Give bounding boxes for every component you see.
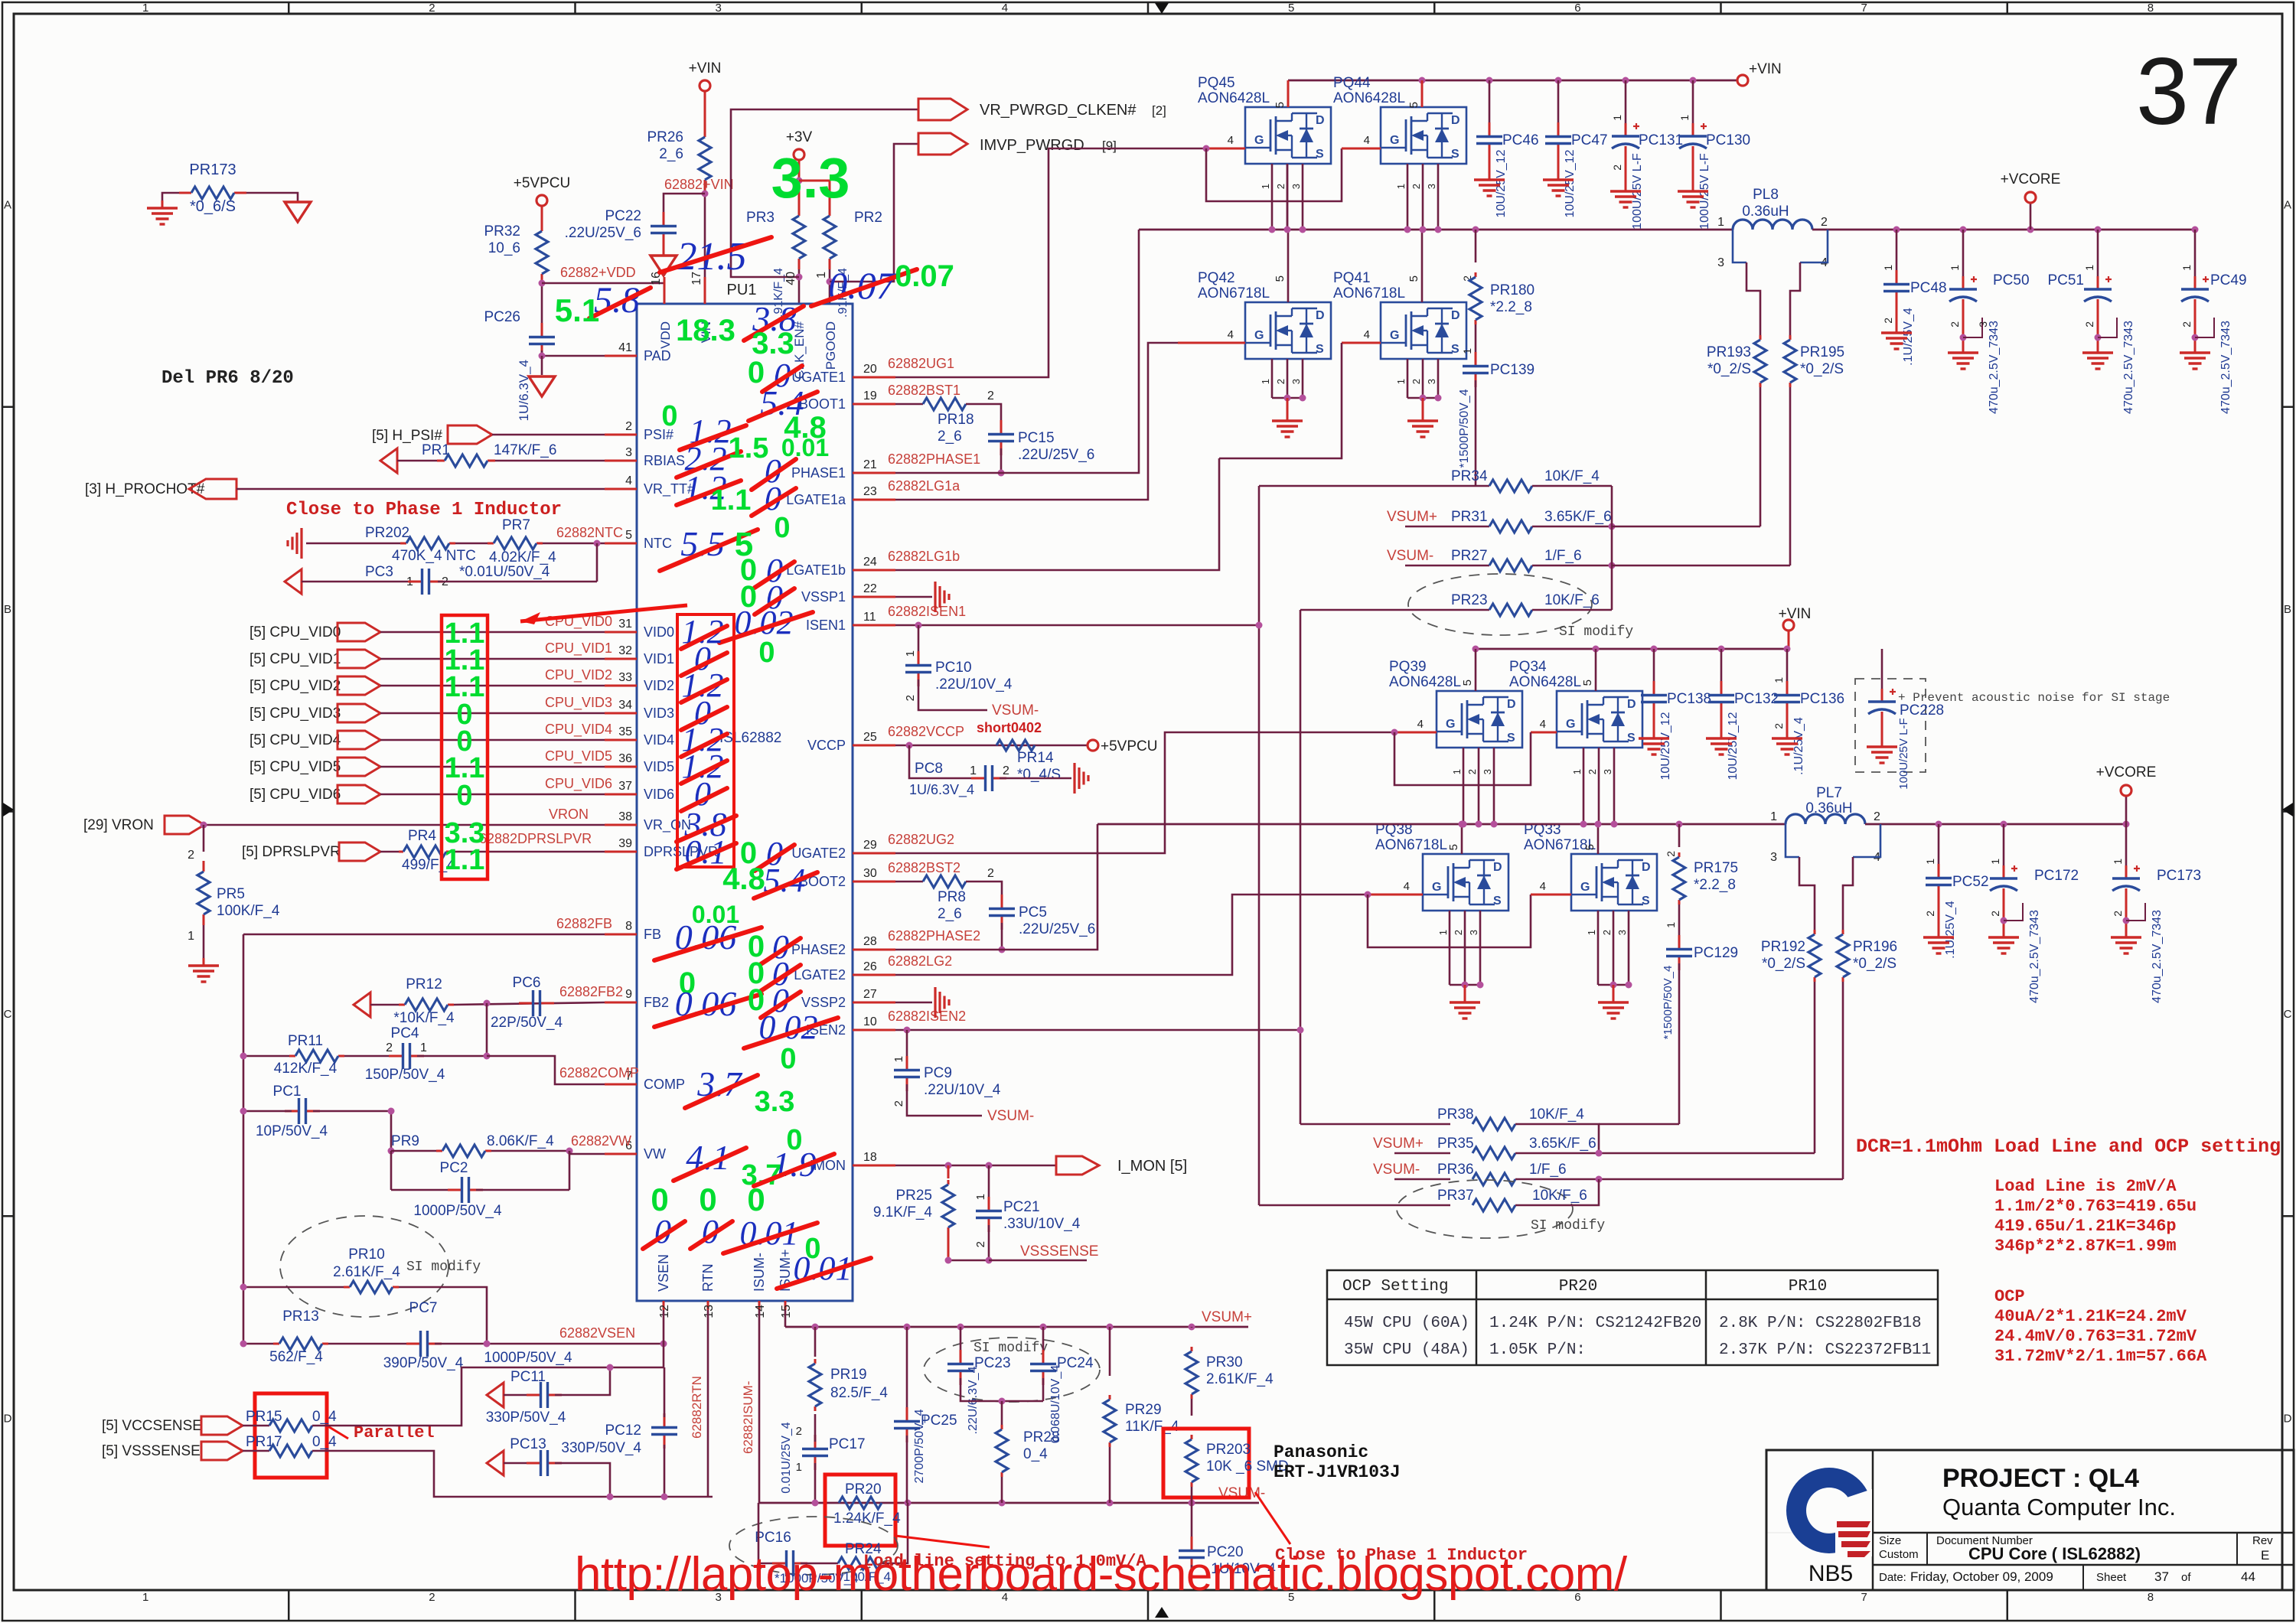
svg-text:5: 5 (1447, 844, 1460, 850)
svg-text:FB: FB (644, 927, 661, 942)
IC left pin 41 PAD (605, 355, 637, 357)
wire CPU_VID5 (380, 766, 605, 768)
resistor PR173 (179, 192, 191, 194)
svg-text:8.06K/F_4: 8.06K/F_4 (487, 1133, 554, 1149)
svg-text:[5] CPU_VID2: [5] CPU_VID2 (249, 678, 341, 694)
svg-text:D: D (1451, 309, 1460, 322)
svg-text:UGATE1: UGATE1 (791, 370, 846, 385)
svg-text:FB2: FB2 (644, 995, 669, 1010)
svg-text:62882ISEN2: 62882ISEN2 (888, 1009, 966, 1024)
svg-text:D: D (2284, 1413, 2292, 1426)
svg-text:470K_4 NTC: 470K_4 NTC (392, 548, 476, 564)
svg-text:29: 29 (863, 839, 877, 852)
svg-text:PHASE1: PHASE1 (791, 465, 846, 481)
svg-text:10K/F_4: 10K/F_4 (1529, 1106, 1584, 1123)
wire PR193 to VSUM+ row (1760, 387, 1762, 526)
power port +VCORE phase2 (2125, 796, 2128, 824)
svg-text:1: 1 (1949, 265, 1961, 271)
svg-text:7: 7 (1861, 1591, 1867, 1604)
svg-text:PC131: PC131 (1639, 132, 1683, 148)
svg-text:22P/50V_4: 22P/50V_4 (491, 1015, 563, 1031)
svg-text:.1U/25V_4: .1U/25V_4 (1792, 717, 1805, 775)
IC left pin 31 VID0 (605, 631, 637, 634)
wire CPU_VID6 (380, 794, 605, 796)
svg-text:3: 3 (1468, 930, 1479, 935)
IC right pin 10 ISEN2 (853, 1029, 895, 1031)
svg-text:7: 7 (1861, 2, 1867, 15)
wire PC3 (302, 581, 413, 583)
svg-text:33: 33 (618, 671, 632, 684)
svg-text:OCP: OCP (1994, 1287, 2025, 1306)
svg-text:1/F_6: 1/F_6 (1529, 1162, 1567, 1178)
svg-text:G: G (1254, 329, 1264, 342)
svg-text:PC138: PC138 (1667, 691, 1711, 707)
IC bottom pin 14 ISUM- (758, 1301, 761, 1310)
wire gate link PQ38-PQ33 (1368, 895, 1531, 947)
svg-text:4: 4 (1364, 134, 1370, 147)
svg-text:3.3: 3.3 (755, 1086, 795, 1118)
capacitor PC8 (909, 745, 971, 778)
capacitor PC7 (328, 1343, 413, 1345)
svg-text:28: 28 (863, 935, 877, 948)
wire PC129 sense to PR38 (1599, 1123, 1679, 1126)
svg-text:PL7: PL7 (1816, 785, 1842, 801)
svg-text:VSUM+: VSUM+ (1373, 1136, 1424, 1152)
svg-text:+VIN: +VIN (689, 60, 722, 77)
svg-text:40: 40 (784, 272, 797, 285)
svg-text:31.72mV*2/1.1m=57.66A: 31.72mV*2/1.1m=57.66A (1994, 1347, 2207, 1366)
wire ISUM+ vertical (784, 1310, 787, 1327)
svg-text:D: D (1451, 114, 1460, 127)
svg-text:62882UG2: 62882UG2 (888, 832, 954, 847)
svg-text:.22U/25V_6: .22U/25V_6 (565, 225, 641, 241)
svg-text:62882UG1: 62882UG1 (888, 356, 954, 371)
svg-text:0: 0 (699, 1181, 716, 1217)
wire PR10 to VSEN node (399, 1287, 487, 1344)
svg-text:8: 8 (2148, 2, 2154, 15)
svg-text:.1U/25V_4: .1U/25V_4 (1902, 308, 1915, 366)
svg-text:Sheet: Sheet (2096, 1571, 2127, 1584)
IC bottom pin 13 RTN (707, 1301, 709, 1310)
svg-text:[5] VCCSENSE: [5] VCCSENSE (102, 1418, 202, 1434)
PQ33 pin5 stub (1597, 824, 1600, 854)
svg-text:419.65u/1.21K=346p: 419.65u/1.21K=346p (1994, 1217, 2177, 1236)
svg-text:PC47: PC47 (1571, 132, 1608, 148)
PQ39 pin4 wire (1394, 732, 1437, 734)
svg-text:SI modify: SI modify (406, 1260, 481, 1275)
svg-text:S: S (1627, 732, 1636, 745)
PQ42 source pins to ground (1271, 359, 1274, 398)
IC left pin 38 VR_ON (605, 824, 637, 826)
svg-text:VSSP1: VSSP1 (801, 589, 846, 605)
svg-text:G: G (1566, 718, 1575, 731)
PQ41 source pins to ground (1407, 359, 1409, 398)
svg-text:PR7: PR7 (502, 517, 530, 533)
svg-text:1: 1 (815, 272, 828, 279)
svg-text:10: 10 (863, 1015, 877, 1028)
svg-text:PR38: PR38 (1437, 1106, 1474, 1123)
svg-text:2_6: 2_6 (659, 146, 683, 162)
wire PR5 to ground (203, 925, 205, 958)
svg-text:Custom: Custom (1879, 1548, 1919, 1561)
PQ44 source pins 1 2 3 (1407, 164, 1409, 230)
wire H_PSI# to PSI# (492, 434, 605, 436)
svg-text:PAD: PAD (644, 348, 671, 363)
capacitor PC129 (1678, 935, 1681, 950)
svg-text:+VCORE: +VCORE (2096, 764, 2157, 781)
svg-text:62882ISEN1: 62882ISEN1 (888, 604, 966, 619)
svg-text:DCR=1.1mOhm Load Line and OCP: DCR=1.1mOhm Load Line and OCP setting (1856, 1136, 2281, 1158)
wire RTN vertical (707, 1310, 709, 1497)
IC left pin 8 FB (605, 934, 637, 936)
svg-text:VSUM+: VSUM+ (1387, 509, 1437, 525)
svg-text:1: 1 (1924, 859, 1936, 865)
svg-text:LGATE1b: LGATE1b (786, 562, 846, 578)
svg-text:4: 4 (1417, 718, 1424, 731)
PQ38 pin4 wire (1368, 894, 1423, 896)
svg-text:0: 0 (758, 637, 775, 669)
resistor PR203 (1191, 1435, 1193, 1439)
wire PR26 to 62882+VIN node (704, 191, 706, 304)
svg-text:IMVP_PWRGD: IMVP_PWRGD (980, 137, 1084, 154)
svg-text:SI modify: SI modify (1559, 624, 1633, 640)
svg-text:PQ44: PQ44 (1333, 75, 1371, 91)
svg-text:10U/25V_12: 10U/25V_12 (1564, 149, 1577, 217)
svg-text:*0_2/S: *0_2/S (1800, 361, 1844, 377)
capacitor PC132 (1720, 649, 1723, 688)
IC right pin 23 LGATE1a (853, 499, 895, 501)
ground triangle right of PR173 (285, 202, 311, 222)
svg-text:S: S (1493, 895, 1502, 908)
svg-text:62882PHASE1: 62882PHASE1 (888, 451, 980, 467)
svg-text:2: 2 (429, 1591, 435, 1604)
svg-text:PR19: PR19 (830, 1367, 867, 1383)
capacitor PC5 (1001, 895, 1003, 909)
svg-text:2.37K P/N: CS22372FB11: 2.37K P/N: CS22372FB11 (1719, 1341, 1931, 1359)
svg-text:*0.01U/50V_4: *0.01U/50V_4 (459, 564, 550, 580)
svg-text:37: 37 (618, 780, 632, 793)
transistor Q PQ45 AON6428L (1245, 107, 1331, 164)
svg-text:*2.2_8: *2.2_8 (1694, 877, 1736, 893)
red annotation box PR203 (1163, 1429, 1249, 1498)
svg-text:2: 2 (1773, 723, 1785, 729)
svg-text:1: 1 (1461, 348, 1473, 354)
svg-text:LGATE2: LGATE2 (794, 967, 846, 983)
svg-text:62882VSEN: 62882VSEN (559, 1325, 635, 1341)
wire PHASE1 run (895, 230, 1139, 473)
svg-text:1: 1 (1260, 379, 1271, 384)
svg-text:45W CPU (60A): 45W CPU (60A) (1344, 1315, 1469, 1332)
svg-text:D: D (1507, 698, 1516, 711)
svg-text:PC132: PC132 (1734, 691, 1779, 707)
wire PGOOD to IMVP_PWRGD arrow (830, 144, 918, 282)
svg-text:2: 2 (1601, 930, 1613, 935)
svg-text:PC10: PC10 (935, 660, 972, 676)
svg-text:PR18: PR18 (938, 412, 974, 428)
PQ42 pin4 wire (1178, 342, 1245, 344)
svg-text:34: 34 (618, 699, 632, 712)
wire to PR202 (306, 543, 406, 545)
svg-text:62882LG1a: 62882LG1a (888, 478, 960, 494)
svg-text:41: 41 (618, 341, 632, 354)
svg-text:PC172: PC172 (2034, 868, 2079, 884)
svg-text:1.1: 1.1 (711, 484, 752, 517)
svg-text:10K/F_4: 10K/F_4 (1544, 468, 1600, 484)
svg-text:1.05K P/N:: 1.05K P/N: (1489, 1341, 1586, 1359)
IC right pin 27 VSSP2 (853, 1002, 895, 1004)
svg-text:1: 1 (2083, 265, 2095, 271)
svg-text:5: 5 (1274, 102, 1287, 108)
svg-text:VRON: VRON (549, 807, 589, 822)
svg-text:2: 2 (974, 1241, 987, 1247)
svg-text:1: 1 (1882, 265, 1894, 271)
svg-text:Date:: Date: (1879, 1571, 1906, 1584)
svg-text:0: 0 (651, 1181, 668, 1217)
IC right pin 25 VCCP (853, 745, 895, 747)
ground below PR5 (203, 958, 205, 966)
svg-text:D: D (1316, 114, 1325, 127)
svg-text:.1U/25V_4: .1U/25V_4 (1944, 901, 1957, 959)
svg-text:VR_PWRGD_CLKEN#: VR_PWRGD_CLKEN# (980, 102, 1137, 119)
svg-text:2: 2 (1411, 379, 1422, 384)
IC right pin 26 LGATE2 (853, 974, 895, 976)
wire PR32 to VDD node (541, 285, 543, 329)
svg-text:1: 1 (1611, 115, 1623, 121)
resistor PR18 (895, 403, 923, 406)
wire PC7 to VSEN pin (435, 1343, 664, 1345)
svg-text:PL8: PL8 (1753, 187, 1779, 203)
svg-text:35W CPU (48A): 35W CPU (48A) (1344, 1341, 1469, 1359)
resistor PR192 (1814, 930, 1816, 934)
output arrow IMVP_PWRGD (918, 133, 967, 155)
svg-text:0.07: 0.07 (828, 264, 897, 307)
svg-text:1U/6.3V_4: 1U/6.3V_4 (909, 782, 974, 798)
svg-text:10U/25V_12: 10U/25V_12 (1495, 149, 1508, 217)
capacitor PC25 (906, 1327, 908, 1414)
svg-text:VSUM-: VSUM- (987, 1108, 1034, 1124)
svg-text:1: 1 (2112, 859, 2124, 865)
IC left pin 34 VID3 (605, 712, 637, 715)
wire VCCP run (895, 745, 1088, 747)
svg-text:470u_2.5V_7343: 470u_2.5V_7343 (2219, 321, 2232, 414)
svg-text:PR37: PR37 (1437, 1188, 1474, 1204)
svg-text:Friday, October 09, 2009: Friday, October 09, 2009 (1910, 1569, 2053, 1584)
svg-text:VCCP: VCCP (807, 738, 846, 753)
svg-text:0: 0 (661, 400, 677, 432)
svg-text:2: 2 (1453, 930, 1464, 935)
svg-text:S: S (1451, 148, 1459, 161)
svg-text:VDD: VDD (658, 321, 673, 349)
svg-text:2: 2 (386, 1041, 393, 1054)
svg-text:NB5: NB5 (1808, 1561, 1853, 1586)
IC right pin 29 UGATE2 (853, 852, 895, 855)
svg-text:2: 2 (1989, 911, 2001, 917)
ground below PC26 (541, 356, 543, 375)
svg-text:short0402: short0402 (977, 720, 1042, 735)
svg-text:2_6: 2_6 (938, 429, 962, 445)
capacitor PC2 (390, 1151, 393, 1190)
svg-text:D: D (1316, 309, 1325, 322)
capacitor PC20 (1191, 1503, 1193, 1543)
IC right pin 18 IMON (853, 1165, 895, 1167)
svg-text:1: 1 (2180, 265, 2193, 271)
svg-text:*1500P/50V_4: *1500P/50V_4 (1458, 389, 1471, 468)
IC right pin 11 ISEN1 (853, 624, 895, 627)
svg-text:PR9: PR9 (391, 1133, 419, 1149)
svg-text:1: 1 (1717, 216, 1724, 229)
svg-text:PC136: PC136 (1800, 691, 1844, 707)
svg-text:18.3: 18.3 (676, 314, 735, 347)
svg-text:*1500P/50V_4: *1500P/50V_4 (1662, 966, 1675, 1040)
svg-text:PC9: PC9 (924, 1065, 952, 1081)
svg-text:470u_2.5V_7343: 470u_2.5V_7343 (2122, 321, 2135, 414)
ground below PQ41 (1422, 413, 1424, 421)
resistor PR180 (1475, 230, 1477, 262)
table OCP Setting (1327, 1270, 1938, 1365)
IC left pin 7 COMP (605, 1084, 637, 1086)
svg-text:2: 2 (188, 849, 194, 862)
power port +5VPCU (536, 195, 547, 206)
svg-text:1: 1 (188, 930, 194, 943)
svg-text:150P/50V_4: 150P/50V_4 (365, 1067, 445, 1083)
svg-text:2: 2 (1003, 764, 1009, 777)
svg-text:25: 25 (863, 731, 877, 744)
svg-text:PC15: PC15 (1018, 430, 1055, 446)
IC right pin 28 PHASE2 (853, 949, 895, 951)
svg-text:2: 2 (1466, 769, 1478, 774)
svg-text:I_MON [5]: I_MON [5] (1117, 1158, 1187, 1175)
svg-text:PR4: PR4 (408, 828, 436, 844)
svg-text:http://laptop-motherboard-sche: http://laptop-motherboard-schematic.blog… (575, 1548, 1628, 1601)
PQ42 pin5 stub (1287, 230, 1290, 302)
svg-text:UGATE2: UGATE2 (791, 846, 846, 861)
svg-text:3: 3 (1482, 769, 1493, 774)
svg-text:PR12: PR12 (406, 976, 442, 992)
svg-text:2: 2 (1665, 851, 1677, 857)
capacitor PC26 (541, 323, 543, 337)
svg-text:PQ45: PQ45 (1198, 75, 1235, 91)
svg-text:G: G (1390, 329, 1399, 342)
svg-text:2: 2 (1611, 165, 1623, 171)
capacitor PC228 polarized (1881, 649, 1883, 693)
svg-text:NTC: NTC (644, 536, 672, 551)
resistor PR196 (1842, 930, 1844, 934)
svg-text:1: 1 (1678, 115, 1691, 121)
open triangle PC3 left (285, 569, 302, 594)
svg-text:PR175: PR175 (1694, 860, 1738, 876)
svg-text:Rev: Rev (2252, 1534, 2273, 1547)
IC bottom pin 15 ISUM+ (784, 1301, 787, 1310)
svg-text:3: 3 (1290, 184, 1302, 189)
svg-text:VID4: VID4 (644, 732, 674, 748)
svg-text:PQ41: PQ41 (1333, 270, 1371, 286)
svg-text:10U/25V_12: 10U/25V_12 (1659, 712, 1672, 780)
svg-text:VID1: VID1 (644, 651, 674, 666)
svg-text:10K/F_6: 10K/F_6 (1544, 592, 1600, 608)
svg-text:ISUM-: ISUM- (752, 1253, 767, 1292)
svg-text:VSUM-: VSUM- (1387, 548, 1433, 564)
dashed ellipse SI modify PC23 PC24 (924, 1338, 1100, 1402)
svg-text:0_4: 0_4 (1023, 1446, 1048, 1462)
svg-text:1: 1 (1586, 930, 1597, 935)
svg-text:PC52: PC52 (1952, 874, 1989, 890)
svg-text:1.1: 1.1 (445, 844, 485, 876)
svg-text:CPU_VID4: CPU_VID4 (545, 722, 612, 738)
wire VSUM+ row to PR193 (1612, 526, 1760, 528)
wire LGATE1b run (895, 458, 1219, 570)
wire 62882+VIN to PC22 (664, 194, 705, 214)
svg-text:62882COMP: 62882COMP (559, 1065, 639, 1080)
svg-text:[5] DPRSLPVR: [5] DPRSLPVR (242, 844, 341, 860)
svg-text:PR5: PR5 (217, 886, 245, 902)
svg-text:2: 2 (1821, 216, 1828, 229)
svg-text:4: 4 (1404, 880, 1410, 893)
svg-text:PR203: PR203 (1206, 1442, 1251, 1458)
svg-text:62882+VDD: 62882+VDD (560, 265, 636, 280)
IC left pin 9 FB2 (605, 1002, 637, 1004)
svg-text:[29] VRON: [29] VRON (83, 817, 154, 833)
wire NTC node down to PC3 (596, 543, 598, 582)
wire +5VPCU to PR32 (541, 206, 543, 220)
svg-text:4: 4 (1228, 134, 1234, 147)
wire PQ45 sources to phase bus (1287, 164, 1289, 230)
PQ38 pin5 stub (1461, 824, 1463, 854)
svg-text:3: 3 (1770, 851, 1777, 864)
svg-text:AON6718L: AON6718L (1198, 285, 1270, 301)
resistor PR34 (1259, 485, 1489, 487)
wire VSSSENSE net (948, 1260, 989, 1262)
svg-text:0: 0 (456, 780, 472, 812)
svg-text:62882+VIN: 62882+VIN (664, 177, 734, 192)
svg-text:62882FB2: 62882FB2 (559, 984, 623, 999)
IC right pin 20 UGATE1 (853, 376, 895, 379)
svg-text:2: 2 (1874, 810, 1880, 823)
svg-text:G: G (1580, 881, 1590, 894)
resistor PR8 (895, 881, 923, 883)
svg-text:PR30: PR30 (1206, 1354, 1243, 1370)
svg-text:2.61K/F_4: 2.61K/F_4 (1206, 1371, 1274, 1387)
svg-text:35: 35 (618, 725, 632, 738)
svg-text:330P/50V_4: 330P/50V_4 (561, 1440, 641, 1456)
svg-text:AON6428L: AON6428L (1509, 674, 1581, 690)
PQ45 pin4 wire (1206, 148, 1245, 150)
svg-text:PQ42: PQ42 (1198, 270, 1235, 286)
svg-text:1: 1 (1260, 184, 1271, 189)
wire PR15 to PC11 bracket (312, 1367, 664, 1426)
svg-text:PR26: PR26 (647, 129, 683, 145)
wire H_PROCHOT# to VR_TT# (236, 488, 605, 490)
svg-text:Quanta Computer Inc.: Quanta Computer Inc. (1942, 1494, 2176, 1520)
svg-text:PC1: PC1 (273, 1084, 302, 1100)
svg-text:1.5: 1.5 (729, 432, 769, 464)
svg-text:62882BST1: 62882BST1 (888, 383, 960, 398)
wire gate link PQ45-PQ44 (1206, 148, 1342, 201)
svg-text:PR29: PR29 (1125, 1402, 1162, 1418)
svg-text:0_4: 0_4 (312, 1409, 337, 1425)
wire VRON junction down to PR5 (203, 825, 205, 852)
svg-text:32: 32 (618, 644, 632, 657)
svg-text:346p*2*2.87K=1.99m: 346p*2*2.87K=1.99m (1994, 1237, 2177, 1256)
red callout line PR203 (1255, 1492, 1290, 1544)
ground VSSP2 (895, 1002, 932, 1004)
svg-text:5: 5 (1461, 680, 1474, 686)
svg-text:13: 13 (703, 1305, 716, 1318)
svg-text:10_6: 10_6 (488, 240, 520, 256)
svg-text:62882RTN: 62882RTN (690, 1376, 704, 1439)
svg-text:PR193: PR193 (1707, 344, 1751, 360)
svg-text:39: 39 (618, 837, 632, 850)
svg-text:4.8: 4.8 (722, 862, 765, 896)
